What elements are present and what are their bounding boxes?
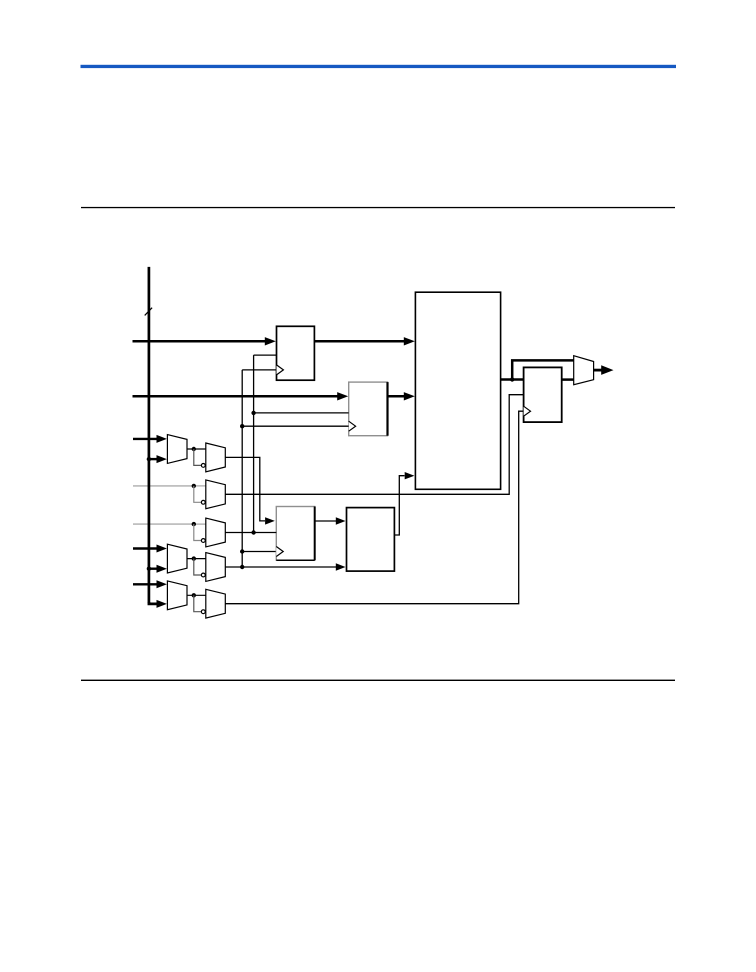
output register R (524, 367, 562, 422)
header blue rule (81, 65, 677, 68)
node row1 bus junction (147, 457, 151, 461)
wire row5 mux out stub (187, 594, 206, 596)
wire row2 bubble jog (194, 486, 202, 502)
node row5 junction (192, 593, 196, 597)
row3 mux small (206, 518, 226, 547)
output mux (574, 356, 594, 385)
inverter bubble row3 (201, 539, 205, 543)
wire row5 output clock to output register (225, 411, 523, 604)
node row4 clock junction (240, 565, 244, 569)
node row1 junction (192, 447, 196, 451)
node clock register B junction (240, 424, 244, 428)
output register clock triangle (524, 406, 531, 416)
wire data out arrow (594, 369, 602, 372)
node row4 bus junction (147, 567, 151, 571)
wire enable net vertical (253, 355, 255, 532)
wire row1 mux output to register C (225, 457, 265, 521)
register A clock triangle (277, 365, 284, 375)
wire row5 upper input (133, 583, 158, 585)
row1 input mux big (167, 435, 187, 464)
inverter bubble row2 (201, 500, 205, 504)
wire clock to register B (242, 425, 349, 427)
wire row4 mux out (187, 558, 206, 560)
row1 mux small (206, 443, 226, 472)
wire enable to register B (254, 412, 349, 414)
wire row1 lower input (149, 458, 158, 460)
node enable register B junction (251, 411, 255, 415)
wire clock to register A (242, 369, 276, 371)
wire D output to multiplier (394, 476, 404, 535)
row5 input mux big (167, 581, 187, 610)
wire data_a input (133, 340, 267, 343)
node row4 junction (192, 556, 196, 560)
wire input bus vertical (148, 267, 151, 603)
wire row4 output clock to D (225, 566, 336, 568)
wire row1 bubble jog (194, 449, 202, 465)
wire output register to mux (562, 378, 574, 381)
wire row2 to mux (194, 485, 206, 487)
row5 mux small (206, 589, 226, 618)
wire output bypass (512, 360, 574, 380)
wire enable to register A (254, 354, 277, 356)
wire row4 bubble jog (194, 559, 202, 575)
section divider top rule (81, 207, 675, 208)
sign register C right edge (314, 507, 316, 561)
row4 input mux big (167, 544, 187, 573)
inverter bubble row1 (201, 464, 205, 468)
sign register C bottom edge (276, 559, 314, 561)
wire row5 bubble jog (194, 595, 202, 611)
node row3 junction (192, 522, 196, 526)
inverter bubble row5 (201, 610, 205, 614)
wire row2 ena net to output register (225, 395, 523, 495)
wire data_b registered to multiplier (388, 395, 406, 398)
wire clock net vertical (241, 370, 243, 567)
sign logic D (347, 508, 395, 571)
sign register C clock triangle (276, 547, 283, 557)
wire row3 output to register C enable (225, 532, 276, 534)
node multiplier output junction (510, 377, 514, 381)
wire row5 lower input from bus corner (149, 602, 158, 604)
node row2 junction (192, 484, 196, 488)
sign register C (276, 507, 314, 561)
section divider bottom rule (81, 680, 675, 681)
mux rows (133, 435, 225, 618)
wire data_a registered to multiplier (314, 340, 405, 343)
inverter bubble row4 (201, 573, 205, 577)
wire clock to register C (242, 551, 276, 553)
wire row3 bubble jog (194, 524, 202, 540)
register B clock triangle (349, 421, 356, 431)
row4 mux small (206, 553, 226, 582)
bus width slash (145, 308, 152, 316)
multiplier U1 (415, 292, 500, 489)
wire aclr input (gray) (133, 523, 194, 525)
wire row1 upper input (133, 438, 158, 440)
register B (349, 382, 388, 436)
node row3 enable junction (251, 530, 255, 534)
register B right edge (386, 382, 388, 436)
wire row4 lower input (149, 568, 158, 570)
wire multiplier output (501, 378, 524, 381)
wire signb input (gray) (133, 485, 194, 487)
register A (277, 326, 315, 380)
wire register C to D (315, 520, 336, 522)
wire row4 upper input (133, 547, 158, 549)
row2 mux small (206, 480, 226, 509)
node clock register C junction (240, 549, 244, 553)
wire row1 mux out (187, 448, 206, 450)
wire data_b input (133, 395, 339, 398)
wire row3 to mux (194, 523, 206, 525)
